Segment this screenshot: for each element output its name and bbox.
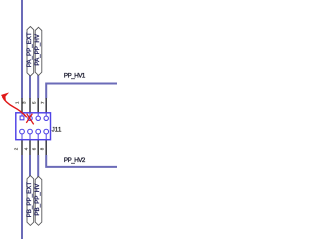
wire: left rail top (pin 1) (21, 0, 23, 98)
pin 7 circle marker (45, 113, 47, 117)
pin 4 stub (29, 140, 31, 155)
pin 7 stub (45, 98, 47, 113)
svg-text:PP_HV1: PP_HV1 (64, 73, 86, 80)
pin 3 stub (29, 98, 31, 113)
svg-text:PA_PP_EXT: PA_PP_EXT (26, 32, 33, 67)
pin 3 circle marker (29, 113, 31, 117)
svg-text:6: 6 (32, 147, 37, 150)
wire: PA_PP_HV to pin 5 (37, 75, 39, 98)
pin 1 stub (21, 98, 23, 113)
svg-text:1: 1 (14, 101, 19, 104)
svg-text:2: 2 (13, 147, 18, 150)
connector J11 body (16, 113, 51, 140)
wire: pin 4 to PB_PP_EXT (29, 155, 31, 176)
pin 6 circle marker (36, 129, 41, 134)
pin 2 stub (21, 140, 23, 155)
pin 4 circle marker (28, 129, 33, 134)
svg-text:7: 7 (40, 101, 45, 104)
svg-text:5: 5 (32, 101, 37, 104)
pin 5 circle marker (37, 113, 39, 117)
svg-text:PP_HV2: PP_HV2 (64, 157, 86, 164)
global label PB_PP_EXT (27, 176, 34, 226)
global label PA_PP_HV (35, 27, 42, 75)
red annotation arrow (2, 96, 26, 117)
svg-text:8: 8 (39, 147, 44, 150)
pin 5 stub (37, 98, 39, 113)
wire: pin 6 to PB_PP_HV (37, 155, 39, 177)
pin 6 stub (37, 140, 39, 155)
red X over pin 3 (26, 114, 33, 125)
pin 1 square marker (21, 113, 23, 116)
svg-text:PB_PP_HV: PB_PP_HV (34, 183, 41, 216)
pin 8 stub (45, 140, 47, 155)
svg-text:J11: J11 (52, 126, 62, 133)
wire: left rail bottom (pin 2) (21, 155, 23, 239)
svg-text:4: 4 (23, 147, 28, 150)
wire: pin 8 to PP_HV2 net (46, 155, 117, 167)
wire: PA_PP_EXT to pin 3 (29, 76, 31, 99)
pin 2 circle marker (20, 129, 25, 134)
global label PA_PP_EXT (27, 27, 34, 77)
svg-text:PB_PP_EXT: PB_PP_EXT (26, 182, 33, 218)
svg-text:PA_PP_HV: PA_PP_HV (34, 33, 41, 65)
wire: PP_HV1 net to pin 7 (46, 84, 117, 99)
global label PB_PP_HV (35, 176, 42, 225)
pin 8 circle marker (44, 129, 49, 134)
